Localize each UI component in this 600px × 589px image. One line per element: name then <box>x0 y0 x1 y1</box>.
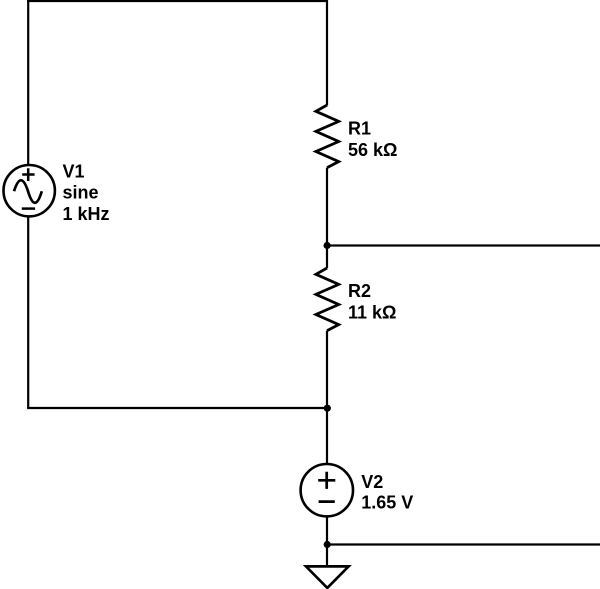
svg-text:R2: R2 <box>348 281 371 301</box>
resistor R1 <box>316 105 339 168</box>
svg-text:sine: sine <box>63 183 99 203</box>
ground symbol <box>306 566 349 588</box>
svg-text:V2: V2 <box>361 472 383 492</box>
svg-text:V1: V1 <box>63 162 85 182</box>
svg-text:R1: R1 <box>348 119 371 139</box>
wire R1 to R2 <box>326 168 328 268</box>
node C junction dot <box>324 541 331 548</box>
wire R2 to V2 <box>326 331 328 464</box>
wire V2 to ground <box>326 517 328 567</box>
voltage source V2 <box>301 464 353 516</box>
svg-text:1 kHz: 1 kHz <box>63 204 110 224</box>
resistor R2 <box>316 268 339 331</box>
node B junction dot <box>324 405 331 412</box>
wire bottom horizontal <box>27 407 327 409</box>
wire right vertical upper <box>326 0 328 105</box>
svg-text:11 kΩ: 11 kΩ <box>348 302 396 322</box>
wire node C to right edge <box>327 543 600 545</box>
svg-text:1.65 V: 1.65 V <box>361 493 413 513</box>
wire top horizontal <box>27 0 327 2</box>
wire left vertical upper <box>27 0 29 165</box>
wire node A to right edge <box>327 244 600 246</box>
svg-text:56 kΩ: 56 kΩ <box>348 140 397 160</box>
node A junction dot <box>324 242 331 249</box>
voltage source V1 <box>4 165 55 216</box>
wire left vertical lower <box>27 217 29 408</box>
